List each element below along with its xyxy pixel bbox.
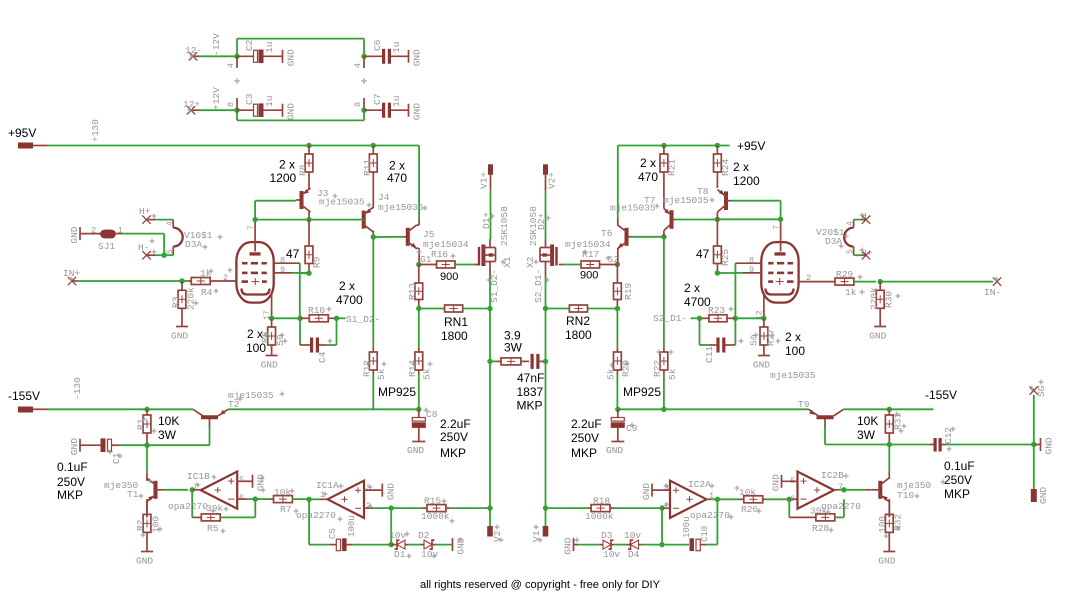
svg-text:100u: 100u [347,515,357,537]
terminal H- right [861,211,872,224]
wire T9 emitter rail [844,408,934,410]
resistor R3 [171,281,197,327]
svg-text:47: 47 [696,247,710,261]
capacitor C12 [889,427,1034,452]
svg-text:4: 4 [846,221,855,226]
svg-text:GND: GND [286,49,297,66]
transistor T1 [104,445,165,517]
svg-text:GND: GND [563,537,574,554]
svg-text:IC2A: IC2A [688,479,711,490]
wire T1 base [165,489,188,491]
wire -155V rail left [47,377,193,409]
svg-text:opa2270: opa2270 [168,501,208,512]
svg-text:mje15034: mje15034 [565,239,611,250]
node IC1A output junction [306,497,311,502]
diode D2 [418,530,438,560]
svg-text:MKP: MKP [440,446,466,460]
node junction C7 [361,108,366,113]
svg-text:R20: R20 [621,360,632,377]
svg-text:C8: C8 [426,409,438,420]
capacitor C3 [237,93,283,117]
svg-text:opa2270: opa2270 [296,510,336,521]
resistor R12 [362,237,388,409]
terminal SG [1030,385,1047,444]
svg-text:39k: 39k [810,506,827,517]
svg-text:D3A: D3A [825,236,842,247]
node X1 RN1 [0,0,1,1]
resistor R13 [407,265,423,309]
terminal H+ right [861,248,873,259]
svg-text:R4: R4 [201,287,213,298]
svg-text:GND: GND [407,445,424,456]
transistor T7 [610,172,676,237]
svg-text:2.2uF: 2.2uF [440,417,471,431]
terminal IN- [984,277,1001,298]
svg-text:2 x: 2 x [684,281,700,295]
node R13 bottom [416,306,421,311]
terminal H+ left [139,206,156,224]
pin origin marks [69,54,1044,559]
terminal V1- [531,508,548,542]
svg-text:+95V: +95V [8,126,36,140]
svg-text:12-: 12- [185,45,202,56]
svg-text:R26: R26 [741,504,758,515]
ground C8 [407,442,425,457]
svg-text:C11: C11 [704,346,715,363]
ground R27 [753,356,770,371]
resistor R17 [559,249,618,268]
svg-text:+130: +130 [90,119,101,142]
ground C6 [409,49,423,66]
filament V20$1 [816,220,862,256]
label C8 value [440,417,471,460]
filament V10$1 [164,220,213,256]
svg-text:4: 4 [353,63,363,68]
wire anode row [255,219,360,221]
svg-text:2.2uF: 2.2uF [571,417,602,431]
svg-text:D1: D1 [394,549,406,560]
svg-text:100u: 100u [682,516,692,538]
svg-text:D4: D4 [628,549,640,560]
wire grid node [300,263,309,318]
node T8 collector junction [715,217,720,222]
power flag +95V left [8,126,47,149]
svg-text:V1+: V1+ [479,172,490,189]
svg-text:100: 100 [877,516,888,533]
node R9 bottom junction [306,271,311,276]
svg-text:10v: 10v [389,530,406,541]
svg-text:50: 50 [275,334,286,346]
svg-text:GND: GND [385,483,396,500]
transistor T2 [193,390,274,445]
tube V10 grid pin 8 [274,256,300,266]
svg-text:C6: C6 [372,39,383,51]
label RN1 [441,315,468,343]
resistor R28 [789,499,844,534]
svg-text:GND: GND [69,438,80,455]
op-amp IC1B pin6 [237,498,255,500]
svg-text:3: 3 [664,483,669,493]
resistor R14 [407,309,433,410]
tube V20 grid pin 9 [735,265,761,275]
node R8 rail [306,143,311,148]
svg-text:SJ1: SJ1 [98,241,115,252]
svg-text:2SK1058: 2SK1058 [528,206,539,246]
svg-text:10v: 10v [603,549,620,560]
op-amp IC2A pin3 ground [641,483,670,500]
op-amp IC1 power pin 8 [226,98,237,110]
capacitor C10 [662,499,717,551]
svg-text:5: 5 [166,249,175,254]
op-amp IC1A [296,480,371,521]
wire IC2B out to T10 [844,489,866,491]
svg-text:5k: 5k [667,368,678,380]
wire cathode to R23 [735,317,764,319]
svg-text:S1_D2-: S1_D2- [346,314,380,325]
node R25 bottom junction [715,270,720,275]
svg-text:10K: 10K [857,414,878,428]
svg-text:4700: 4700 [336,293,363,307]
label R24 value [733,160,760,188]
svg-text:R22: R22 [652,360,663,377]
transistor J5 [404,146,469,265]
label C1 value [57,460,88,502]
node IC1B output [190,487,201,492]
power flag -155V left [8,389,47,413]
node T6 base junction [661,234,666,239]
svg-text:7: 7 [246,225,256,230]
node IC2B output [834,487,847,492]
wire J4 to J5 [373,236,404,238]
ground R2 [136,552,153,567]
resistor R21 [660,146,678,177]
op-amp IC1B [168,471,244,512]
terminal 12- [185,45,202,61]
svg-text:IC1B: IC1B [187,471,210,482]
svg-text:C4: C4 [317,351,328,363]
svg-text:T2: T2 [228,399,240,410]
resistor R31 [885,409,903,444]
svg-text:R29: R29 [836,269,853,280]
label R16 value [440,271,458,283]
svg-text:R15: R15 [424,496,441,507]
tube V10 [236,242,273,303]
tube V20 grid pin 8 [735,256,761,266]
label RN2 [565,314,592,342]
svg-text:GND: GND [606,445,623,456]
node R18 right junction [659,505,664,510]
svg-text:GND: GND [69,226,80,243]
capacitor C6 [364,39,409,64]
svg-text:R25: R25 [720,249,731,266]
op-amp IC2 power pin 8 [353,98,364,110]
svg-text:R1: R1 [136,418,147,430]
svg-text:GND: GND [878,556,895,567]
svg-text:0.1uF: 0.1uF [57,460,88,474]
wire T6 base [631,236,664,238]
svg-text:-12V: -12V [211,33,222,56]
svg-text:2: 2 [664,501,669,511]
svg-text:1u: 1u [264,96,275,107]
svg-text:220k: 220k [869,287,880,310]
tube V20 cathode lead [756,293,765,320]
wire T7 base [676,219,717,221]
label R6 value [246,327,266,355]
svg-text:10v: 10v [421,549,438,560]
node cathode junction right [761,316,766,321]
resistor R15 [391,496,490,523]
label 47nF [517,371,545,413]
resistor R7 [255,487,309,515]
svg-text:T6: T6 [601,228,613,239]
ground C3 [283,103,297,120]
wire 12V loop left bottom [236,110,238,120]
svg-text:2SK1058: 2SK1058 [499,206,510,246]
svg-text:GND: GND [412,103,423,120]
svg-text:R9: R9 [312,256,323,268]
terminal H- left [138,242,164,259]
node R19 bottom [615,306,620,311]
terminal IN+ [63,268,80,285]
svg-text:1k: 1k [200,268,212,279]
node S2 [608,254,621,267]
svg-text:10v: 10v [624,530,641,541]
node R23 right [733,316,738,321]
svg-text:S2_D1-: S2_D1- [533,269,544,303]
svg-text:220k: 220k [186,287,197,310]
svg-text:4: 4 [226,63,236,68]
svg-text:1k: 1k [845,287,857,298]
node zobel left [487,359,492,364]
node tube anode junction [252,217,257,222]
node R15 left junction [389,505,394,510]
wire J3 base [255,201,296,220]
svg-text:1200: 1200 [733,174,760,188]
svg-text:900: 900 [440,271,458,283]
terminal V2- [487,508,503,542]
terminal 12+ [183,99,200,114]
capacitor C1 [80,438,122,464]
wire 12V loop right top [363,39,365,57]
label MP925 right [623,385,661,399]
node V1- junction [543,505,548,510]
wire SJ1 to heater [116,234,164,256]
svg-text:250V: 250V [571,431,599,445]
svg-text:IC2B: IC2B [821,470,844,481]
label R8 value [270,158,297,186]
svg-text:RN1: RN1 [444,315,468,329]
resistor R16 [419,249,479,268]
capacitor C9 [611,409,638,441]
svg-text:6: 6 [239,493,244,503]
svg-text:2 x: 2 x [339,279,355,293]
svg-text:R18: R18 [593,496,610,507]
resistor R26 [717,487,789,515]
op-amp IC1B pin5 ground [237,474,266,491]
resistor R1 [136,409,151,445]
wire T9 base row [825,444,889,446]
ground C2 [283,49,297,66]
svg-text:D3: D3 [601,530,613,541]
svg-text:5: 5 [846,249,855,254]
ground C7 [409,103,423,120]
svg-text:8: 8 [353,102,363,107]
node R10 right [334,316,339,321]
tube V10 cathode pin 2 [223,273,228,283]
svg-text:mje15035: mje15035 [378,202,424,213]
label R11 value [387,159,407,186]
svg-text:R24: R24 [720,159,731,176]
svg-text:D1+: D1+ [481,212,492,229]
transistor T10 [866,445,932,518]
label zobel R value [504,329,523,355]
transistor T9 [770,370,844,445]
wire +95V rail left [47,119,419,146]
svg-text:4: 4 [166,221,175,226]
svg-text:50: 50 [749,334,760,346]
label R9 value [286,247,300,261]
svg-text:MKP: MKP [944,487,970,501]
svg-text:C2: C2 [244,39,255,51]
svg-text:GND: GND [753,360,770,371]
resistor R29 [799,269,876,298]
svg-text:H+: H+ [139,206,151,217]
svg-text:100: 100 [785,344,805,358]
svg-text:2 x: 2 x [247,327,263,341]
label R25 value [696,247,710,261]
node J3 emitter junction [306,217,311,222]
svg-text:1000k: 1000k [421,511,450,522]
svg-text:R31: R31 [893,413,904,430]
node junction C2 [234,54,239,59]
node RN2 left [543,306,548,311]
svg-text:R19: R19 [623,283,634,300]
resistor R4 [182,268,236,298]
node R31 rail [887,407,892,412]
svg-text:0.1uF: 0.1uF [944,459,975,473]
svg-text:1800: 1800 [565,328,592,342]
capacitor C2 [237,39,283,63]
svg-text:470: 470 [387,171,407,185]
svg-text:GND: GND [641,483,652,500]
svg-text:8: 8 [749,256,754,266]
node SG junction [1031,442,1036,447]
node G1 [416,254,432,267]
resistor R27 [749,318,777,355]
svg-text:9: 9 [280,265,285,275]
wire -12V [199,33,237,56]
node clamp junction right [659,542,664,547]
resistor R11 [362,146,377,177]
ground SJ1 [69,226,103,243]
svg-text:-130: -130 [72,377,83,400]
svg-text:R16: R16 [431,249,448,260]
svg-text:+95V: +95V [737,139,765,153]
svg-text:opa2270: opa2270 [690,510,730,521]
svg-text:8: 8 [280,256,285,266]
resistor RN2 [546,305,618,312]
svg-text:4700: 4700 [684,295,711,309]
op-amp IC1 power pin 4 [226,56,240,84]
svg-text:3W: 3W [504,341,523,355]
svg-text:R5: R5 [207,523,219,534]
svg-text:5: 5 [239,475,244,485]
transistor J4 [360,172,424,237]
label R1 value [158,414,179,442]
svg-text:R27: R27 [766,329,777,346]
svg-text:C10: C10 [700,526,710,542]
svg-text:2 x: 2 x [279,158,295,172]
svg-text:R14: R14 [407,360,418,377]
resistor R22 [652,237,678,409]
terminal V1+ [479,164,494,189]
svg-text:GND: GND [136,556,153,567]
diode D4 [614,530,662,560]
label C9 value [571,417,602,460]
wire anode row right [717,218,780,220]
node cathode junction left [269,316,274,321]
node R10 left [297,316,302,321]
svg-text:RN2: RN2 [566,314,590,328]
svg-text:1837: 1837 [517,385,544,399]
capacitor C5 [309,499,391,551]
svg-text:all rights reserved @ copyrigh: all rights reserved @ copyright - free o… [420,579,661,591]
ground R6 [261,356,278,371]
node C8 junction [416,407,421,412]
capacitor C11 [700,318,736,363]
svg-text:1000k: 1000k [585,511,614,522]
resistor R30 [869,282,895,327]
wire T8 base [731,201,781,220]
power label +95V right [737,139,765,153]
wire -155V rail right [618,408,809,410]
label copyright [420,579,661,591]
wire T2 collector rail [228,408,419,410]
svg-text:1u: 1u [391,96,402,107]
tube V20 anode lead [772,222,782,252]
svg-text:-155V: -155V [8,389,40,403]
mosfet X2 [525,206,557,277]
wire cathode to R10 [272,317,300,319]
wire D2 gnd [436,544,453,546]
svg-text:8: 8 [226,102,236,107]
ground C12 right [1034,437,1055,454]
node IC1B pin6 junction [253,496,258,501]
svg-text:3W: 3W [158,428,177,442]
op-amp IC1A pin3 ground [364,483,396,500]
resistor R19 [614,265,635,309]
svg-text:250V: 250V [57,475,85,489]
label -155V right [925,388,957,402]
diode D1 [389,530,408,560]
svg-text:G1: G1 [420,254,432,265]
node heater junction [161,253,166,258]
resistor R2 [135,499,162,552]
svg-text:3W: 3W [857,428,876,442]
resistor R25 [714,219,732,273]
svg-text:47nF: 47nF [517,371,544,385]
tube V20 cathode pin 2 [806,273,811,283]
ground R3 [171,327,188,342]
node V2- junction [487,505,492,510]
wire +12V [199,87,237,110]
transistor T8 [663,172,731,219]
svg-text:IN+: IN+ [63,268,80,279]
svg-text:mje15035: mje15035 [319,197,365,208]
wire X2 source [533,269,546,508]
node R22 rail [661,407,666,412]
svg-text:1u: 1u [264,42,275,53]
